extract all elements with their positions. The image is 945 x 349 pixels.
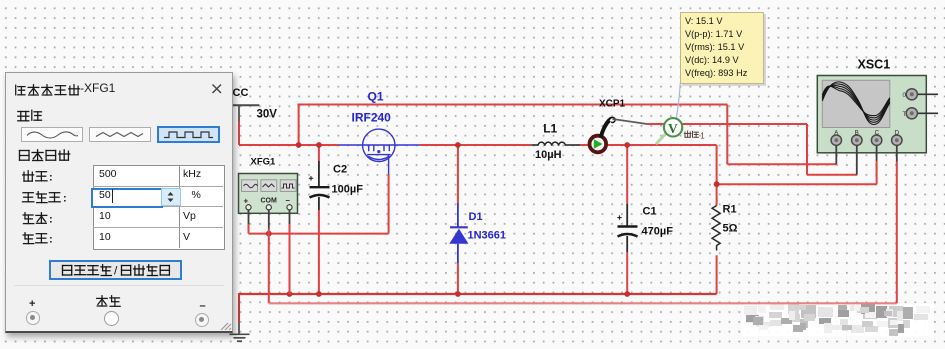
svg-text:30V: 30V: [257, 109, 278, 121]
diode D1 1N3661: [449, 203, 506, 263]
wire XFG1 minus to ground bus: [289, 224, 291, 294]
inductor L1 10uH: [531, 122, 580, 161]
node drain-rail junction: [296, 142, 302, 148]
wire XFG1 COM bus to scope D: [269, 162, 897, 304]
wire scope C stub: [876, 161, 878, 184]
svg-text::: :: [49, 172, 53, 184]
svg-text:COM: COM: [261, 198, 278, 205]
wire switch node right of Q1: [420, 144, 717, 146]
svg-text:R1: R1: [723, 204, 737, 216]
mosaic watermark: [742, 303, 934, 336]
wire XFG1 plus to Q1 source: [249, 174, 389, 234]
wire VCC stem to bus: [239, 121, 339, 145]
svg-text::: :: [49, 213, 53, 225]
svg-text:–: –: [286, 196, 291, 205]
power VCC 30V: [232, 87, 277, 121]
svg-text:1: 1: [700, 132, 705, 141]
svg-text:D1: D1: [469, 211, 483, 223]
svg-text::: :: [63, 192, 67, 204]
function generator XFG1: [239, 157, 298, 229]
dialog function generator XFG1: [5, 72, 233, 333]
svg-text:XFG1: XFG1: [251, 157, 277, 168]
svg-text:CC: CC: [233, 87, 249, 99]
svg-text:XCP1: XCP1: [599, 99, 626, 110]
svg-text:L1: L1: [543, 122, 557, 136]
node XFG1 gate-drive junction: [266, 231, 272, 237]
wire drain rail: [298, 105, 837, 165]
svg-text:470µF: 470µF: [642, 226, 674, 238]
resistor R1 5ohm: [712, 204, 738, 251]
svg-text:10µH: 10µH: [535, 149, 562, 161]
wire C1 branch: [626, 145, 628, 294]
transistor Q1 IRF240: [339, 129, 420, 174]
svg-text:/: /: [114, 263, 118, 277]
svg-text:C1: C1: [643, 206, 657, 218]
svg-text:5Ω: 5Ω: [723, 223, 738, 235]
ground: [230, 323, 250, 342]
wire D1 branch: [457, 145, 459, 294]
capacitor C1 470uF: [617, 204, 673, 252]
node ground bus junctions: [287, 291, 293, 297]
wire to R1 and scope C: [717, 145, 877, 294]
probe V 1: [657, 83, 683, 143]
svg-text:C2: C2: [333, 164, 347, 176]
node scope-C junction: [714, 181, 720, 187]
svg-text::: :: [49, 234, 53, 246]
svg-text:IRF240: IRF240: [352, 111, 392, 125]
current probe XCP1: [590, 99, 648, 153]
svg-text:V: V: [668, 121, 678, 136]
svg-text:XSC1: XSC1: [858, 58, 891, 72]
wire ground bus: [239, 293, 717, 323]
oscilloscope XSC1: [817, 58, 938, 175]
svg-text:T: T: [903, 112, 907, 118]
capacitor C2 100uF: [309, 161, 363, 210]
node D1 top junction: [455, 142, 461, 148]
wire C2 branch: [318, 145, 320, 294]
svg-text:+: +: [244, 197, 249, 206]
svg-text:1N3661: 1N3661: [468, 230, 507, 242]
svg-text:Q1: Q1: [368, 90, 384, 104]
node C2 top junction: [316, 142, 322, 148]
probe readout box: [680, 12, 765, 84]
svg-text:100µF: 100µF: [332, 184, 364, 196]
wire XCP1 cable to scope B: [647, 124, 857, 175]
node C1 top junction: [624, 142, 630, 148]
